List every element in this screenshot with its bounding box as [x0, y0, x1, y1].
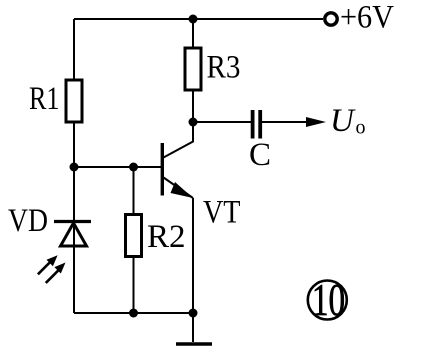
svg-text:10: 10	[312, 275, 345, 325]
ground	[176, 342, 212, 346]
svg-text:o: o	[356, 117, 366, 139]
wire bottom rail	[74, 312, 193, 314]
light arrow 2	[46, 263, 66, 283]
wire left rail	[73, 19, 75, 313]
photodiode VD cathode bar	[54, 220, 91, 223]
node top rail junction	[189, 15, 198, 24]
wire output to capacitor	[193, 121, 251, 123]
resistor R2	[126, 215, 142, 257]
node base left junction	[70, 163, 79, 172]
wire R3 bottom to node	[192, 90, 194, 122]
wire top rail	[74, 18, 323, 20]
terminal +6V	[325, 13, 337, 25]
node base R2 junction	[129, 163, 138, 172]
svg-text:C: C	[249, 137, 271, 173]
wire base	[74, 166, 162, 168]
light arrow 1	[38, 255, 58, 274]
photodiode VD triangle	[61, 223, 87, 246]
wire R2 top	[133, 167, 135, 215]
output arrow shaft	[260, 121, 310, 123]
transistor VT emitter arrowhead	[171, 182, 194, 198]
capacitor C plates	[253, 110, 261, 139]
svg-text:VT: VT	[203, 195, 241, 231]
resistor R3	[185, 48, 201, 90]
wire emitter down	[192, 198, 194, 313]
wire R2 bottom	[133, 257, 135, 314]
output arrowhead	[306, 117, 326, 127]
node emitter bottom junction	[189, 309, 198, 318]
transistor VT base bar	[161, 143, 164, 196]
svg-text:VD: VD	[8, 203, 48, 239]
wire collector	[164, 122, 194, 158]
svg-text:+6V: +6V	[340, 0, 394, 36]
svg-text:U: U	[330, 103, 356, 139]
node R2 bottom junction	[129, 309, 138, 318]
svg-text:R3: R3	[207, 50, 241, 86]
node collector junction	[189, 118, 198, 127]
wire ground stem	[192, 313, 194, 342]
svg-text:R2: R2	[147, 219, 186, 255]
svg-text:R1: R1	[29, 81, 60, 117]
badge circle 10	[308, 281, 347, 320]
wire R3 top	[192, 19, 194, 48]
wire emitter diagonal	[164, 178, 194, 199]
resistor R1	[66, 80, 82, 122]
